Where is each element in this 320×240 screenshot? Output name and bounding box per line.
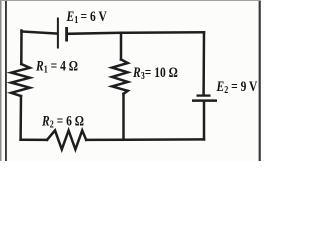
wire: middle branch upper [120, 33, 123, 60]
wire: middle branch lower [122, 94, 125, 140]
wire: top from battery E1 to top-right corner [68, 32, 205, 34]
wire: bottom from R2 to bottom-right corner [86, 138, 204, 141]
resistor R2 [47, 130, 86, 149]
battery E2 long plate [192, 99, 217, 102]
resistor R3 [112, 60, 128, 94]
right frame border [259, 0, 261, 161]
wire: bottom-left to resistor R2 [21, 138, 47, 141]
left frame border [5, 0, 7, 161]
wire: left branch lower [19, 96, 22, 140]
svg-text:E1 = 6 V: E1 = 6 V [66, 7, 107, 26]
svg-text:R2 = 6 Ω: R2 = 6 Ω [41, 112, 84, 131]
wire: right branch upper [202, 32, 205, 94]
wire: right branch lower [203, 101, 206, 139]
background panel [0, 0, 264, 161]
resistor R1 [11, 64, 30, 96]
left image-edge line [0, 0, 2, 161]
wire: left branch upper [20, 31, 23, 65]
top frame border [0, 0, 261, 1]
battery E1 long plate [57, 18, 59, 49]
label E2 = 9 V [216, 78, 258, 97]
svg-text:R3= 10 Ω: R3= 10 Ω [132, 64, 178, 83]
label R1 = 4 ohm [35, 57, 78, 76]
battery E2 short plate [197, 94, 211, 96]
label R2 = 6 ohm [41, 112, 84, 131]
svg-text:R1 = 4 Ω: R1 = 4 Ω [35, 57, 78, 76]
svg-text:E2 = 9 V: E2 = 9 V [216, 78, 258, 97]
battery E1 short plate [65, 27, 68, 42]
label R3 = 10 ohm [132, 64, 178, 83]
label E1 = 6 V [66, 7, 107, 26]
wire: top-left from corner to battery E1 [22, 32, 58, 34]
